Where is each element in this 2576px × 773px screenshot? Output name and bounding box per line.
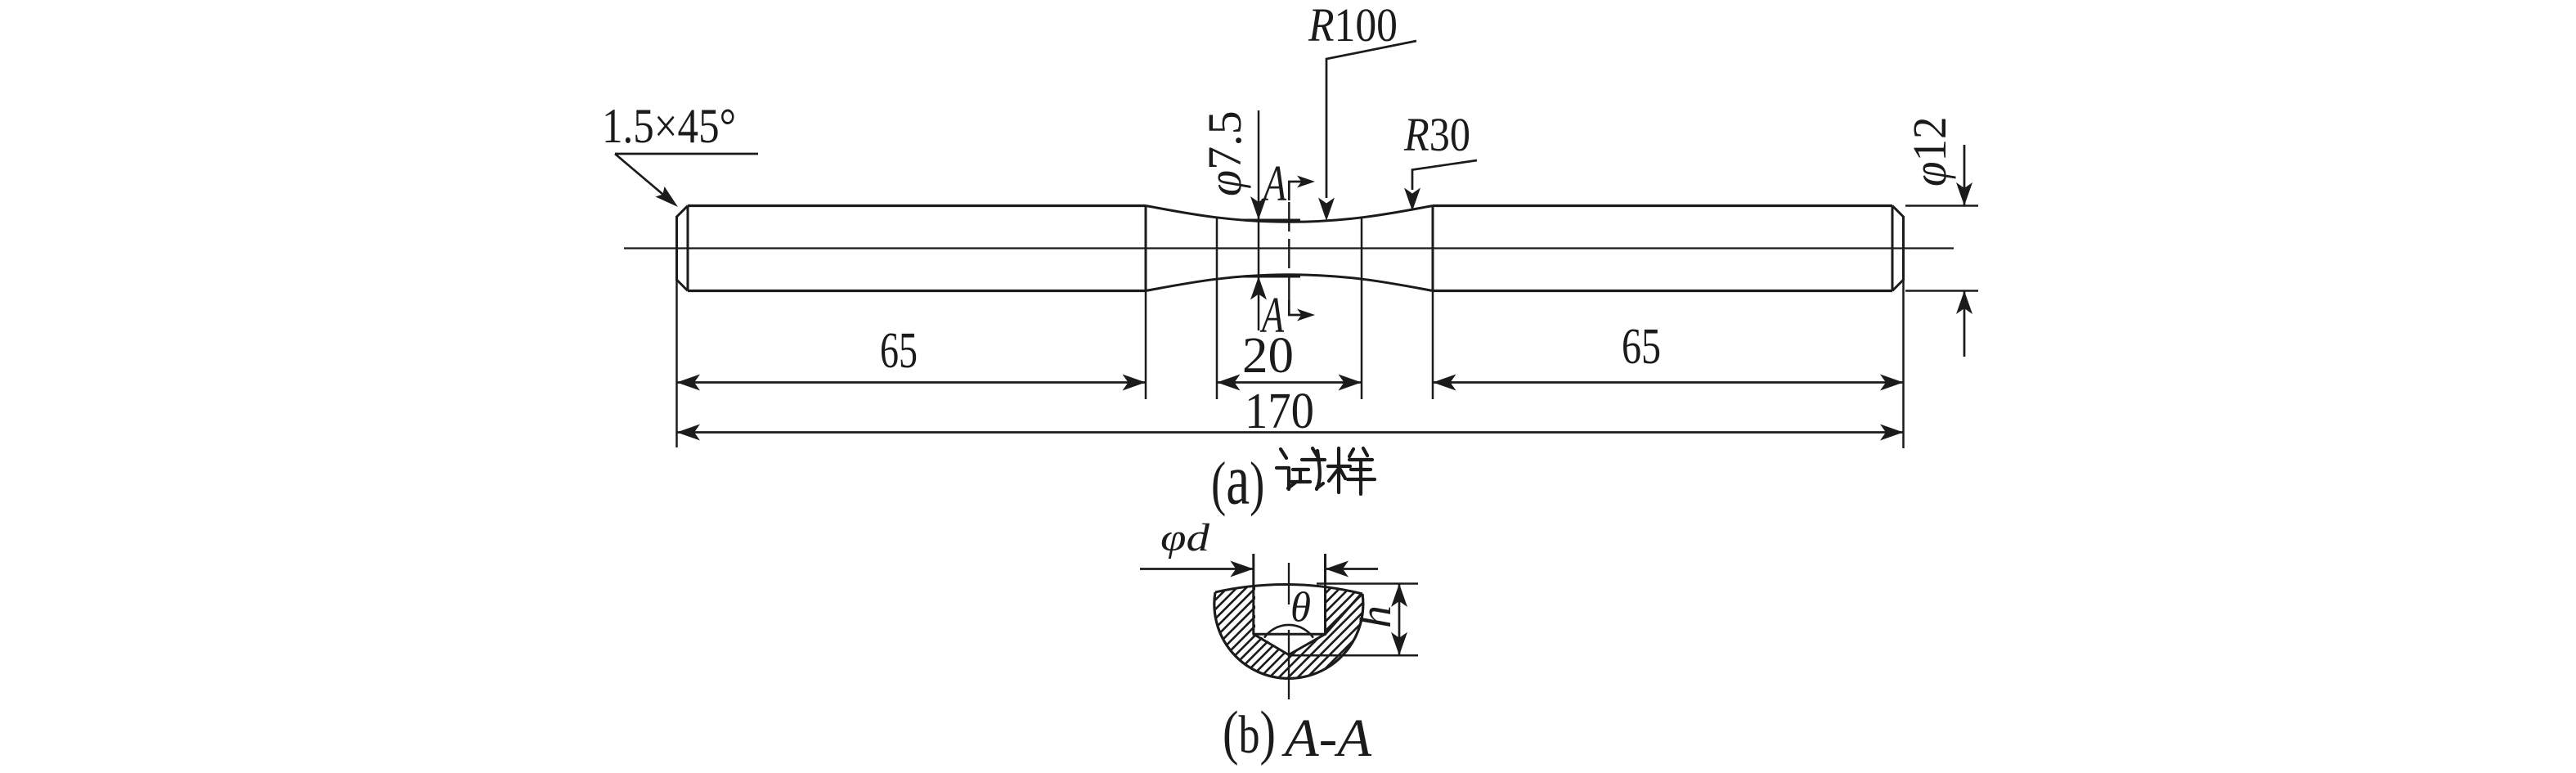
extension line right shoulder (1432, 291, 1434, 400)
extension line gauge right (1361, 217, 1363, 400)
right chamfer bottom (1892, 280, 1904, 291)
notch left wall / phid extension (1252, 554, 1254, 634)
section mark lower hook arrow (1289, 300, 1308, 315)
notch hole white (1255, 574, 1325, 634)
neck top curve R100 (1146, 206, 1433, 222)
neck bottom curve R100 (1146, 275, 1433, 291)
svg-text:θ: θ (1290, 585, 1311, 631)
left chamfer edge line (687, 206, 689, 291)
svg-text:65: 65 (880, 323, 918, 379)
left shoulder line (1145, 206, 1147, 291)
h dimension line (1398, 584, 1401, 656)
svg-text:(a): (a) (1211, 439, 1264, 519)
h bottom extension line (1289, 654, 1418, 657)
dimension 20 line (1217, 381, 1362, 384)
extension line right end (1902, 281, 1905, 448)
svg-text:170: 170 (1245, 384, 1314, 439)
caption (a) (1211, 439, 1264, 519)
svg-text:φd: φd (1160, 516, 1210, 560)
notch right wall / phid extension (1324, 554, 1326, 634)
caption character yang (sample) (1328, 448, 1375, 494)
specimen outline top edge right grip (1433, 204, 1892, 207)
right chamfer top (1892, 206, 1904, 218)
notch bottom line (1253, 633, 1327, 636)
svg-text:R100: R100 (1308, 0, 1398, 52)
specimen outline bottom edge left grip (688, 290, 1146, 292)
svg-text:A: A (1261, 156, 1287, 212)
specimen outline top edge left grip (688, 204, 1146, 207)
right end face (1902, 216, 1905, 281)
extension line left end (675, 281, 678, 447)
dimension 65 left line (677, 381, 1147, 384)
section view material crescent hatched (1214, 584, 1363, 678)
extension line gauge left (1216, 217, 1218, 400)
R30 leader (1412, 160, 1477, 190)
section vertical centerline upper (1288, 563, 1290, 604)
left end face (675, 216, 678, 281)
dimension 65 right line (1433, 381, 1904, 384)
section line A-A dashed (1288, 202, 1290, 300)
svg-text:A: A (1259, 288, 1285, 344)
phi12 dimension line upper (1963, 145, 1966, 206)
phi12 dimension line lower (1963, 291, 1966, 357)
drill point right flank (1289, 634, 1326, 654)
svg-text:h: h (1351, 605, 1400, 628)
centerline of specimen (624, 247, 1954, 249)
right shoulder line (1432, 206, 1434, 291)
gauge tick bottom at phi7.5 (1242, 276, 1300, 278)
extension line left shoulder (1145, 291, 1147, 400)
right chamfer edge line (1892, 206, 1894, 291)
svg-text:φ12: φ12 (1905, 116, 1957, 187)
svg-text:R30: R30 (1403, 108, 1470, 161)
chamfer note underline (615, 153, 758, 155)
svg-text:65: 65 (1622, 319, 1661, 375)
chamfer leader arrow (615, 154, 671, 201)
section mark upper hook arrow (1289, 182, 1308, 200)
phid dimension left line (1140, 568, 1254, 570)
svg-text:A-A: A-A (1281, 708, 1372, 768)
gauge tick top at phi7.5 (1242, 219, 1300, 222)
caption character shi (test) (1277, 448, 1325, 489)
section vertical centerline lower (1288, 630, 1290, 699)
flank extension corner to right tip (1326, 594, 1362, 635)
svg-text:1.5×45°: 1.5×45° (602, 99, 736, 153)
svg-text:(b): (b) (1223, 700, 1276, 766)
phid dimension right line (1326, 568, 1379, 570)
specimen outline bottom edge right grip (1433, 290, 1892, 292)
phi12 extension line bottom (1905, 290, 1978, 292)
left chamfer bottom (677, 280, 689, 291)
h top extension line (1317, 582, 1418, 585)
section top arc outline (1215, 584, 1362, 594)
left chamfer top (677, 206, 689, 218)
caption (b) (1223, 700, 1276, 766)
drill point left flank (1254, 634, 1289, 654)
R100 leader (1326, 41, 1416, 198)
dimension 170 line (677, 431, 1904, 434)
phi7.5 dimension line (1258, 110, 1260, 330)
section outer arc outline (1214, 592, 1363, 678)
theta angle arc (1264, 625, 1313, 638)
phi12 extension line top (1905, 204, 1978, 207)
drill point white triangle (1255, 633, 1325, 654)
svg-text:φ7.5: φ7.5 (1198, 110, 1251, 196)
